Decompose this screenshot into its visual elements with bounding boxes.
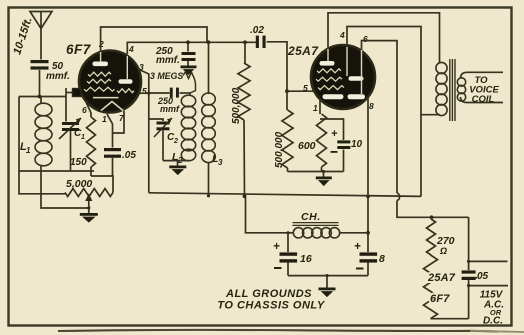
- capacitor C2 (variable): [149, 119, 163, 121]
- svg-text:8: 8: [379, 253, 385, 265]
- wire pin 6 rectifier loop: [362, 41, 398, 193]
- wire antenna lead: [40, 29, 42, 60]
- svg-text:05: 05: [477, 271, 489, 282]
- svg-text:.02: .02: [250, 25, 264, 36]
- capacitor 16 (electrolytic): [286, 231, 289, 234]
- ground (pot wiper): [88, 208, 90, 213]
- antenna: [30, 12, 52, 29]
- svg-text:6F7: 6F7: [430, 293, 450, 305]
- svg-text:mmf.: mmf.: [46, 71, 70, 82]
- resistor 500,000 (first): [244, 42, 246, 63]
- resistor 150: [86, 102, 91, 117]
- output transformer secondary: [457, 78, 465, 86]
- wire voice coil leads: [461, 72, 504, 78]
- wire pin7 drop: [113, 111, 124, 133]
- wire to pot left: [19, 171, 65, 194]
- wire L1 box top: [19, 96, 66, 98]
- svg-text:CH.: CH.: [301, 211, 321, 223]
- ground (L2 box): [177, 161, 179, 166]
- wire 6F7 plate (pin 3) drop: [138, 69, 149, 193]
- wire choke to B+ line: [340, 232, 369, 234]
- wire pin 3 to output transformer primary top: [328, 13, 440, 63]
- wire L1 box bottom: [19, 170, 94, 172]
- wire screen rail (pin 4): [127, 42, 257, 54]
- ground (cathode box): [323, 172, 325, 177]
- inductor L1: [40, 97, 42, 105]
- svg-text:5: 5: [142, 86, 147, 96]
- svg-text:1: 1: [102, 114, 107, 124]
- svg-text:4: 4: [339, 30, 345, 40]
- wire pin 5 link: [139, 92, 149, 94]
- svg-text:3 MEGS: 3 MEGS: [150, 71, 183, 81]
- svg-text:+: +: [354, 241, 361, 253]
- wire pin 8 rail: [367, 97, 369, 252]
- inductor L2: [189, 93, 191, 96]
- svg-text:500,000: 500,000: [274, 131, 285, 168]
- wire cathode box bottom: [288, 171, 344, 173]
- capacitor C1 (variable): [65, 97, 67, 122]
- svg-text:8: 8: [369, 101, 374, 111]
- wire grid tap to tube: [66, 92, 73, 94]
- wire ground bus rail: [149, 193, 421, 197]
- output transformer core: [450, 59, 455, 121]
- wire grid link to pin 5: [287, 90, 313, 92]
- capacitor 10 (electrolytic): [320, 119, 344, 140]
- node L3 top junction: [207, 40, 211, 44]
- resistor 500,000 (second): [286, 91, 288, 110]
- ground (250 mmf): [187, 61, 189, 66]
- antenna length label 10-15ft.: [11, 16, 34, 56]
- svg-text:150: 150: [70, 157, 87, 168]
- svg-text:16: 16: [300, 253, 312, 265]
- triode-pentode tube 6F7: [79, 51, 141, 113]
- rectifier-output tube 25A7: [311, 45, 375, 109]
- svg-text:1: 1: [26, 146, 31, 155]
- svg-text:25A7: 25A7: [287, 44, 319, 58]
- svg-text:3: 3: [218, 158, 223, 167]
- svg-text:+: +: [273, 241, 280, 253]
- output transformer T1 primary: [436, 62, 447, 73]
- wire L2 box bottom: [163, 160, 190, 162]
- svg-text:3: 3: [320, 50, 325, 59]
- node 250mmf junction: [186, 40, 190, 44]
- wire L1 box left: [18, 97, 20, 172]
- svg-text:10: 10: [351, 139, 363, 150]
- svg-text:mmf.: mmf.: [156, 55, 180, 66]
- wire line terminal upper: [467, 260, 470, 263]
- ballast heater string 25A7 / 6F7: [424, 255, 438, 319]
- svg-text:25A7: 25A7: [427, 272, 456, 284]
- svg-text:2: 2: [173, 138, 178, 145]
- svg-text:4: 4: [128, 44, 134, 54]
- capacitor .05 (first): [107, 114, 113, 148]
- wire .02 to 25A7 grid: [267, 42, 287, 91]
- svg-text:6: 6: [82, 105, 87, 115]
- svg-text:1: 1: [313, 103, 318, 113]
- wire line terminal lower: [467, 284, 470, 287]
- node antenna-coil junction: [38, 95, 42, 99]
- capacitor 250 mmf. (bypass): [187, 42, 189, 51]
- wire ballast bottom: [431, 318, 469, 320]
- wire rail drop to filter: [246, 196, 294, 232]
- svg-text:500,000: 500,000: [231, 87, 242, 124]
- node 500k drop: [243, 40, 247, 44]
- capacitor 250 mmf (coupling): [149, 92, 170, 94]
- svg-text:6F7: 6F7: [66, 42, 92, 57]
- wire transformer return: [421, 115, 440, 197]
- wire pin 4 loop: [347, 27, 421, 115]
- svg-text:5: 5: [303, 83, 308, 93]
- svg-text:+: +: [331, 128, 338, 140]
- resistor 270 ohm: [431, 217, 433, 219]
- wire filter bottom: [288, 275, 368, 277]
- wire plate loop (pin 2): [101, 27, 207, 51]
- svg-text:600: 600: [298, 140, 316, 152]
- svg-text:6: 6: [363, 34, 368, 44]
- svg-text:D.C.: D.C.: [483, 316, 503, 327]
- pot wiper arrow: [88, 199, 90, 208]
- wire antenna to tuned circuit: [39, 70, 41, 97]
- svg-text:mmf: mmf: [160, 104, 180, 114]
- svg-text:.05: .05: [122, 150, 136, 161]
- wire wiper return: [41, 171, 89, 208]
- svg-text:5,000: 5,000: [66, 178, 92, 190]
- resistor 600: [319, 99, 321, 114]
- svg-text:ALL GROUNDS: ALL GROUNDS: [225, 288, 312, 300]
- svg-text:1: 1: [81, 134, 85, 141]
- capacitor 8 (electrolytic): [360, 252, 378, 255]
- svg-text:Ω: Ω: [439, 246, 447, 256]
- capacitor 50 mmf.: [31, 60, 49, 63]
- svg-text:TO CHASSIS ONLY: TO CHASSIS ONLY: [217, 300, 325, 312]
- wire 150/.05 bottom: [91, 176, 113, 193]
- inductor L3: [208, 42, 210, 94]
- wire crossover hop: [397, 193, 400, 201]
- svg-text:COIL: COIL: [472, 94, 495, 105]
- capacitor .05 (line): [468, 217, 470, 270]
- ground (filter): [326, 276, 328, 288]
- node 270 junction: [430, 215, 434, 219]
- 6F7 grid cap tab: [73, 89, 82, 97]
- potentiometer 5,000: [65, 189, 113, 197]
